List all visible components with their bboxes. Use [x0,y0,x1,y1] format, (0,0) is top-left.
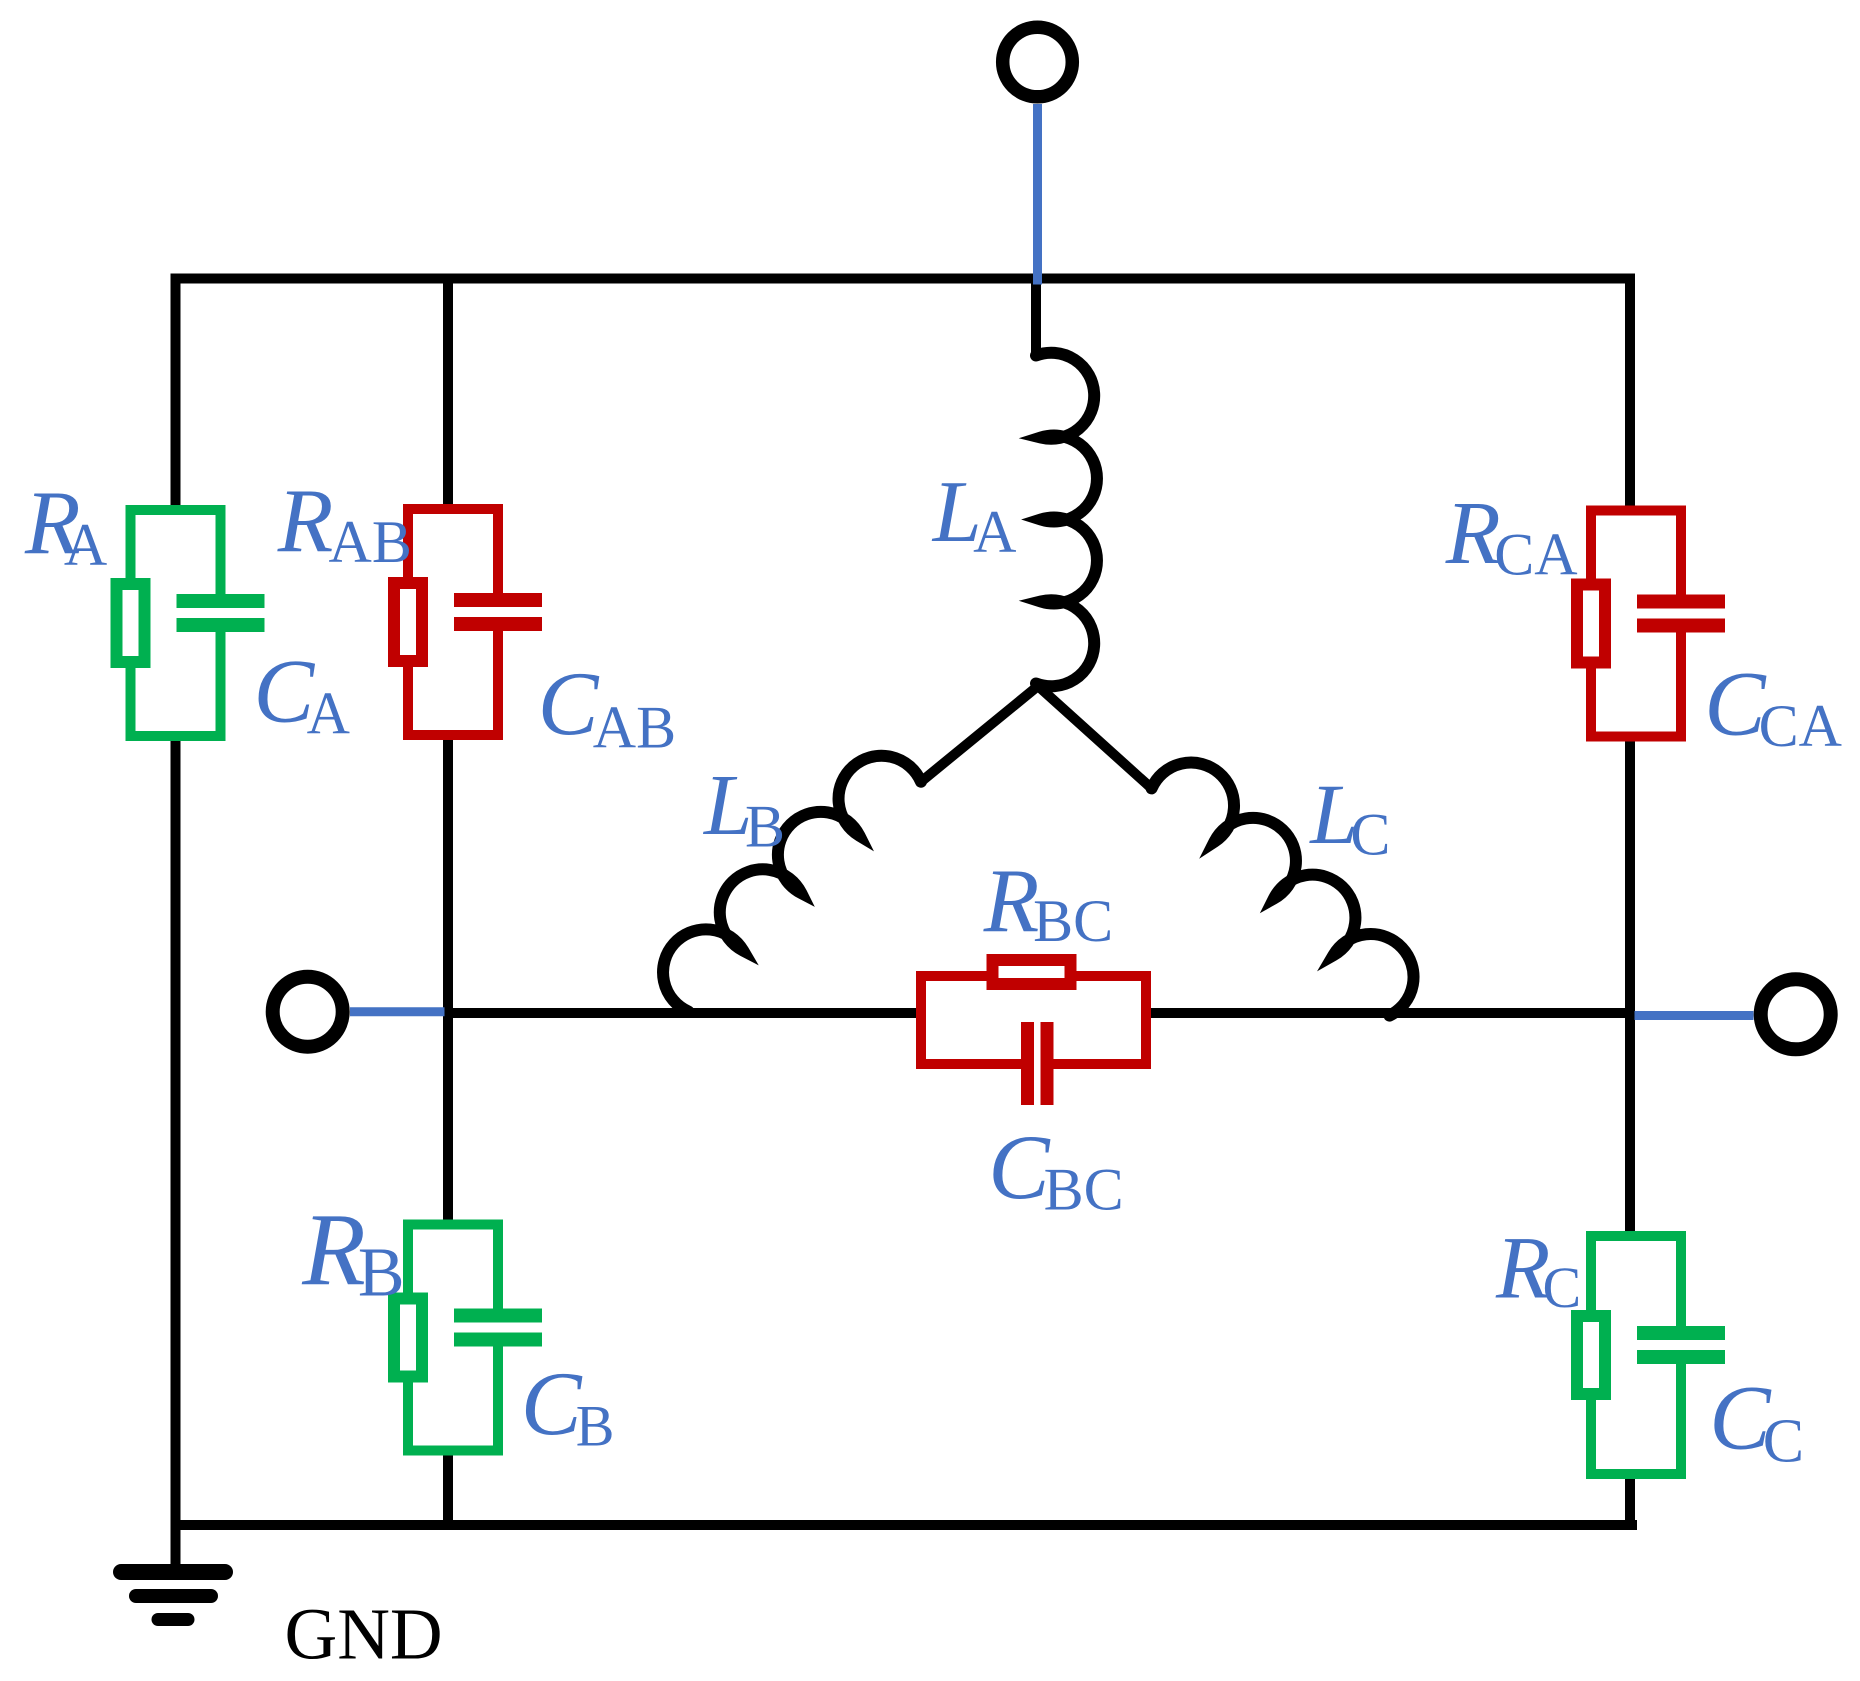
svg-text:C: C [1350,802,1390,868]
wire: blue lead terminal B [350,1007,445,1016]
label C_A [254,641,350,747]
ground symbol [121,1572,225,1620]
wire: blue lead terminal A [1033,104,1042,285]
wire: top bus [171,274,1636,284]
label L_C [1308,766,1390,868]
RC parallel loop R_C/C_C [1591,1236,1711,1474]
svg-text:B: B [358,1235,405,1312]
label L_A [931,464,1017,565]
wire: right bus middle segment [1625,733,1635,1238]
svg-text:CA: CA [1759,693,1842,759]
label R_C [1495,1220,1581,1321]
svg-text:C: C [1763,1407,1804,1475]
capacitor C_A [177,594,265,632]
wire: left bus lower segment [171,733,181,1530]
capacitor C_AB [454,593,542,631]
capacitor C_B [454,1309,542,1347]
svg-text:CA: CA [1494,521,1577,587]
svg-text:B: B [745,794,785,860]
label R_A [24,472,107,578]
wire: star point to L_B diagonal [921,686,1038,782]
label C_BC [988,1116,1123,1222]
resistor R_BC [993,960,1071,984]
capacitor C_C [1637,1326,1725,1364]
svg-text:BC: BC [1044,1156,1124,1222]
wire: bus A-B upper segment [443,274,453,512]
wire: left bus upper segment [171,274,181,513]
svg-text:A: A [64,512,107,578]
svg-text:R: R [1445,484,1501,583]
resistor R_CA [1577,585,1605,663]
wire: phase A lead from top bus [1031,279,1041,358]
capacitor C_CA [1637,595,1725,633]
label R_AB [277,470,412,575]
label C_C [1709,1366,1804,1475]
resistor R_A [117,584,145,662]
RC parallel loop R_CA/C_CA [1591,511,1711,737]
terminal C (right port) [1761,979,1831,1049]
RC parallel loop R_BC/C_BC [921,976,1146,1094]
RC parallel loop R_B/C_B [408,1225,528,1451]
svg-text:C: C [988,1116,1051,1218]
svg-text:R: R [277,470,334,571]
resistor R_B [394,1299,422,1377]
svg-text:C: C [1543,1255,1582,1320]
inductor L_C (coil) [1152,763,1414,1016]
svg-text:AB: AB [329,509,412,575]
label C_B [521,1353,614,1459]
svg-text:C: C [538,653,600,754]
svg-text:R: R [301,1193,366,1308]
wire: right bus upper segment [1625,274,1635,514]
inductor L_A (coil) [1036,353,1097,687]
terminal B (left port) [273,977,343,1047]
wire: ground stub [171,1525,181,1566]
svg-text:R: R [983,850,1040,951]
RC parallel loop R_AB/C_AB [408,509,528,735]
svg-text:A: A [307,681,350,747]
label R_B [301,1193,404,1312]
capacitor C_BC [1021,1022,1054,1105]
inductor L_B (coil) [663,756,921,1012]
wire: middle bus right segment [1141,1008,1635,1018]
wire: blue lead terminal C [1635,1011,1754,1020]
RC parallel loop R_A/C_A [131,510,251,736]
svg-text:GND: GND [285,1593,443,1674]
wire: middle bus left segment [443,1008,926,1018]
label L_B [702,756,785,860]
resistor R_AB [394,583,422,661]
label C_AB [538,653,676,760]
terminal A (top port) [1003,27,1073,97]
wire: bus A-B middle segment [443,735,453,1227]
label R_CA [1445,484,1578,587]
wire: bus A-B lower segment [443,1449,453,1530]
wire: star point to L_C diagonal [1038,686,1152,788]
resistor R_C [1577,1316,1605,1394]
label C_CA [1704,652,1842,759]
svg-text:BC: BC [1033,888,1113,954]
wire: right bus lower segment [1625,1473,1635,1530]
label R_BC [983,850,1113,954]
svg-text:B: B [576,1393,615,1458]
svg-text:A: A [973,499,1016,565]
wire: bottom bus [171,1520,1638,1530]
svg-text:AB: AB [593,694,676,760]
svg-text:C: C [521,1353,583,1454]
